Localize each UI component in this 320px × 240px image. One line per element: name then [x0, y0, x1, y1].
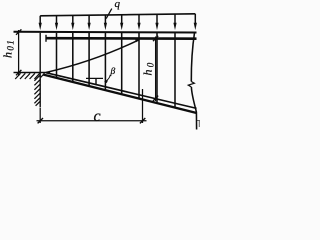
svg-text:q: q	[115, 0, 121, 10]
h0 tick top	[153, 36, 158, 41]
c tick left	[38, 118, 43, 123]
h0 tick bottom	[153, 96, 158, 101]
load arrow 3	[71, 15, 74, 30]
support surface line	[14, 72, 51, 74]
h01 tick bottom	[16, 70, 21, 75]
top reinforcement line	[46, 37, 197, 40]
stirrup 8	[174, 33, 176, 107]
load arrow 4	[88, 15, 91, 30]
beam right edge lower	[191, 87, 196, 130]
reinforcement left end cap	[45, 35, 47, 42]
stirrup 4	[104, 33, 106, 90]
load arrow 10	[194, 14, 197, 30]
load arrow 8	[155, 14, 158, 30]
break zigzag	[188, 82, 194, 88]
beam top chord	[14, 31, 197, 34]
wall face	[39, 33, 41, 107]
inclined crack	[46, 39, 140, 72]
wall face hatching	[34, 75, 40, 106]
h01 tick top	[16, 29, 21, 34]
load arrow 6	[120, 15, 123, 30]
haunch top (reinforcement) sloped line	[46, 73, 197, 109]
load line q	[40, 14, 195, 16]
stirrup 5	[121, 33, 123, 94]
svg-text:β: β	[110, 67, 116, 77]
svg-text:c: c	[94, 108, 101, 125]
load arrow 1	[39, 16, 42, 30]
h01 dimension line	[18, 30, 20, 76]
load arrow 2	[55, 16, 58, 31]
haunch bottom edge sloped line	[43, 75, 197, 114]
stirrup 3	[88, 33, 90, 86]
q leader tick	[106, 9, 112, 19]
stirrup 1	[56, 33, 58, 78]
stirrup 6	[138, 33, 140, 98]
load arrow 5	[104, 15, 107, 30]
beta angle arc	[104, 75, 110, 83]
c extension line right	[142, 89, 144, 123]
page artifact bottom right	[196, 121, 200, 128]
stirrup 2	[72, 33, 74, 82]
h0 dimension line	[155, 37, 157, 102]
c tick right	[140, 118, 145, 123]
c dimension line	[37, 120, 147, 122]
beta angle leg tick	[95, 78, 97, 84]
beam right edge with break	[191, 33, 194, 82]
load arrow 9	[173, 14, 176, 30]
support hatching horizontal	[15, 73, 44, 79]
c extension line left	[39, 108, 41, 124]
stirrup 7	[156, 33, 158, 103]
load arrow 7	[137, 15, 140, 31]
beta reference horizontal	[86, 77, 103, 79]
